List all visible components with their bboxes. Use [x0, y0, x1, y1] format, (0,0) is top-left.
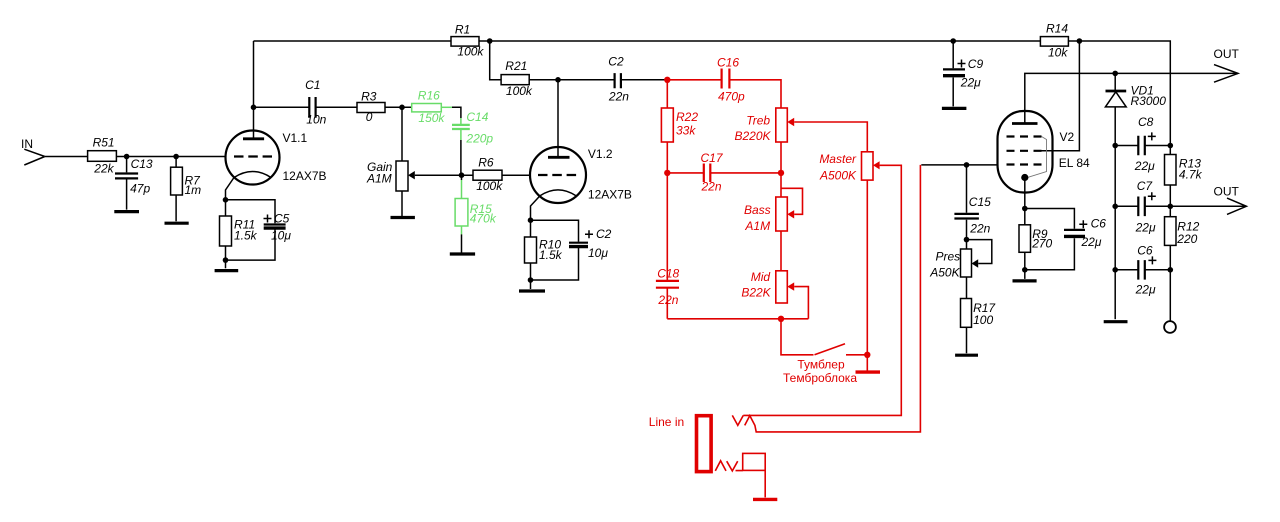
svg-text:22n: 22n	[969, 222, 990, 236]
ground R9	[1013, 270, 1037, 281]
svg-text:R51: R51	[93, 136, 115, 150]
wire R14 right to corner	[1069, 41, 1171, 146]
svg-text:10μ: 10μ	[588, 246, 608, 260]
resistor R13	[1165, 146, 1203, 207]
input IN terminal	[21, 137, 45, 165]
resistor R14	[1040, 22, 1068, 60]
resistor R22	[661, 80, 698, 173]
ground jack sleeve (red)	[753, 470, 777, 499]
node Pres top	[964, 237, 970, 243]
node V1.2 cathode	[528, 217, 534, 223]
wire R51 to V1.1 grid	[116, 156, 226, 158]
node switch / Master bottom (red)	[864, 352, 870, 358]
node rail R21 branch	[487, 38, 493, 44]
node R3 / Gain top	[399, 105, 405, 111]
svg-text:C5: C5	[274, 212, 290, 226]
svg-text:B220K: B220K	[734, 129, 771, 143]
wire rail R1 to R14	[479, 40, 1040, 42]
node C17 right (red)	[778, 170, 784, 176]
svg-text:R6: R6	[478, 156, 494, 170]
svg-text:C6: C6	[1091, 217, 1107, 231]
output OUT top arrow	[1214, 47, 1240, 82]
svg-text:R3000: R3000	[1131, 94, 1167, 108]
node C6 right	[1168, 267, 1174, 273]
svg-text:470k: 470k	[470, 211, 497, 225]
wire VD1 line C7 to C6	[1114, 206, 1116, 269]
resistor R6	[473, 156, 503, 194]
potentiometer Pres A50K	[929, 240, 992, 280]
svg-text:V1.1: V1.1	[283, 131, 308, 145]
svg-text:100: 100	[973, 313, 993, 327]
jack sleeve contact	[715, 453, 765, 471]
svg-text:22μ: 22μ	[1134, 159, 1155, 173]
svg-text:C13: C13	[131, 157, 153, 171]
svg-text:C15: C15	[969, 195, 991, 209]
wire V2 grid net	[921, 164, 997, 166]
svg-text:4.7k: 4.7k	[1179, 168, 1203, 182]
wire R6 to V1.2 grid	[502, 174, 531, 176]
ground switch (red)	[856, 355, 881, 372]
node V2 cathode / R9 top	[1022, 206, 1028, 212]
wire VD1 line C8 to C7	[1114, 146, 1116, 207]
node R6 / R15 / C14	[459, 172, 465, 178]
svg-text:10μ: 10μ	[271, 229, 291, 243]
node C15 tap	[964, 162, 970, 168]
svg-text:C18: C18	[657, 267, 679, 281]
svg-text:Master: Master	[819, 152, 857, 166]
capacitor C6 output chain	[1115, 244, 1170, 297]
wire V1.1 anode up to rail	[253, 41, 255, 139]
svg-text:C1: C1	[305, 78, 320, 92]
ground R17	[955, 354, 978, 357]
potentiometer Treb B220K	[734, 108, 794, 143]
svg-text:33k: 33k	[676, 124, 696, 138]
svg-text:22k: 22k	[93, 162, 114, 176]
wire input to R51	[45, 156, 88, 158]
capacitor C1	[305, 78, 327, 127]
svg-text:Line in: Line in	[649, 415, 684, 429]
wire Master wiper to jack tip	[743, 165, 901, 415]
node C7 right / OUT 2	[1168, 204, 1174, 210]
potentiometer Bass A1M	[744, 173, 802, 233]
node C6 left	[1112, 267, 1118, 273]
node R22 bottom (red)	[664, 170, 670, 176]
ground R10	[519, 280, 545, 291]
svg-text:22μ: 22μ	[960, 76, 981, 90]
svg-text:22n: 22n	[657, 293, 678, 307]
svg-text:R16: R16	[418, 89, 440, 103]
svg-text:100k: 100k	[476, 179, 503, 193]
svg-text:A50K: A50K	[929, 265, 960, 279]
svg-text:Bass: Bass	[744, 203, 771, 217]
node C13 tap	[124, 154, 130, 160]
wire Treb bottom to node	[780, 142, 782, 173]
capacitor C6 cathode bypass	[1025, 209, 1106, 270]
svg-text:C17: C17	[701, 151, 724, 165]
svg-text:22μ: 22μ	[1135, 283, 1156, 297]
ground R7	[165, 222, 189, 225]
svg-text:A500K: A500K	[819, 168, 857, 182]
wire R3 to R16	[385, 106, 412, 108]
wire R21 to C2	[529, 79, 614, 81]
wire C1 net	[254, 106, 358, 108]
wire Master bottom down	[866, 180, 868, 355]
capacitor C2 coupling	[608, 55, 629, 104]
capacitor C13	[115, 157, 153, 210]
wire anode rail top-left	[254, 40, 452, 42]
node V1.2 anode	[555, 77, 561, 83]
wire V2 anode up and to OUT	[1025, 73, 1238, 123]
svg-text:1.5k: 1.5k	[539, 248, 563, 262]
node V1.1 cathode	[223, 197, 229, 203]
node R9 bottom	[1022, 267, 1028, 273]
resistor R21	[501, 59, 533, 98]
svg-text:C16: C16	[717, 56, 739, 70]
svg-text:0: 0	[366, 110, 373, 124]
switch toggle tone block	[781, 319, 867, 385]
svg-text:C2: C2	[596, 227, 612, 241]
svg-text:1.5k: 1.5k	[234, 229, 258, 243]
svg-text:10n: 10n	[306, 113, 326, 127]
triode V1.2	[530, 147, 632, 220]
diode VD1 R3000	[1105, 73, 1166, 145]
resistor R3	[357, 90, 385, 125]
resistor R7	[171, 157, 202, 222]
pentode V2	[998, 111, 1091, 193]
wire screen grid branch	[1042, 41, 1080, 151]
potentiometer Mid B22K	[741, 231, 808, 319]
wire V2 cathode down	[1024, 180, 1026, 209]
node tone stack input (red)	[664, 77, 670, 83]
wire C2 to tone stack	[621, 79, 666, 81]
jack tip contact	[732, 415, 743, 425]
svg-text:C6: C6	[1137, 244, 1153, 258]
wire node to C16	[667, 79, 721, 81]
wire rail down to R21	[490, 41, 501, 80]
resistor R9	[1019, 209, 1053, 270]
svg-text:22μ: 22μ	[1081, 235, 1102, 249]
node R11 bottom	[223, 257, 229, 263]
jack break contact to V2 grid	[745, 165, 921, 432]
svg-text:C2: C2	[608, 55, 624, 69]
node C8 left	[1112, 143, 1118, 149]
resistor R15 (green)	[455, 175, 497, 253]
svg-text:22n: 22n	[608, 90, 629, 104]
resistor R51	[88, 136, 117, 176]
connector Line in jack	[649, 415, 711, 472]
wire Treb wiper to Master top	[794, 122, 867, 152]
svg-text:C8: C8	[1138, 115, 1154, 129]
wire tone stack bottom bus	[667, 318, 808, 320]
svg-text:V1.2: V1.2	[588, 147, 613, 161]
node VD1 top / OUT	[1112, 71, 1118, 77]
capacitor C17	[667, 151, 781, 194]
svg-text:Тумблер: Тумблер	[797, 357, 845, 371]
svg-text:Mid: Mid	[751, 270, 771, 284]
resistor R16 (green)	[412, 89, 446, 126]
svg-text:R14: R14	[1046, 22, 1068, 36]
wire C16 to Treb top	[729, 80, 781, 108]
svg-text:C9: C9	[968, 57, 984, 71]
svg-text:EL 84: EL 84	[1059, 156, 1090, 170]
output OUT bottom arrow	[1170, 185, 1246, 215]
svg-text:OUT: OUT	[1214, 47, 1240, 61]
capacitor C8	[1115, 115, 1170, 173]
node C7 left	[1112, 204, 1118, 210]
node R10 bottom	[528, 277, 534, 283]
capacitor C16	[717, 56, 745, 104]
svg-text:100k: 100k	[506, 84, 533, 98]
svg-text:47p: 47p	[130, 182, 150, 196]
capacitor C9	[943, 41, 983, 106]
ground C13	[114, 210, 139, 213]
svg-text:270: 270	[1031, 237, 1052, 251]
svg-text:Treb: Treb	[746, 114, 770, 128]
svg-text:C7: C7	[1137, 179, 1154, 193]
ground C9	[942, 107, 967, 110]
svg-text:R3: R3	[361, 90, 377, 104]
svg-text:470p: 470p	[718, 90, 745, 104]
resistor R10	[525, 220, 563, 280]
resistor R1	[451, 23, 484, 59]
node C8 right	[1168, 143, 1174, 149]
node R7 tap	[173, 154, 179, 160]
capacitor C15	[954, 165, 991, 240]
resistor R11	[220, 200, 258, 260]
svg-text:A1M: A1M	[744, 219, 770, 233]
ground Gain	[391, 216, 415, 219]
potentiometer Master A500K	[819, 152, 880, 183]
svg-text:12AX7B: 12AX7B	[283, 169, 327, 183]
svg-text:C14: C14	[466, 110, 488, 124]
svg-text:Темброблока: Темброблока	[783, 371, 857, 385]
capacitor C7	[1115, 179, 1170, 235]
svg-text:B22K: B22K	[741, 285, 771, 299]
svg-text:R21: R21	[505, 59, 527, 73]
svg-text:IN: IN	[21, 137, 33, 151]
svg-text:150k: 150k	[418, 111, 445, 125]
svg-text:22n: 22n	[701, 180, 722, 194]
terminal output circle	[1164, 270, 1176, 333]
svg-text:220p: 220p	[465, 131, 493, 145]
svg-text:1m: 1m	[185, 183, 202, 197]
potentiometer Gain A1M	[366, 107, 473, 216]
svg-text:22μ: 22μ	[1135, 221, 1156, 235]
svg-text:R22: R22	[676, 110, 698, 124]
resistor R17	[961, 277, 997, 353]
svg-text:220: 220	[1176, 232, 1197, 246]
ground VD1 chain	[1104, 270, 1128, 322]
svg-text:100k: 100k	[457, 45, 484, 59]
capacitor C18	[656, 173, 680, 319]
capacitor C2 cathode bypass	[531, 220, 612, 280]
svg-text:V2: V2	[1060, 130, 1075, 144]
svg-text:R1: R1	[455, 23, 470, 37]
node C9 tap on rail	[950, 38, 956, 44]
svg-text:12AX7B: 12AX7B	[588, 188, 632, 202]
ground R11	[215, 260, 239, 271]
capacitor C5	[226, 200, 292, 260]
wire R16 to C14	[441, 107, 461, 124]
svg-text:10k: 10k	[1048, 46, 1068, 60]
svg-text:OUT: OUT	[1214, 185, 1240, 199]
node bus / Mid bottom (red)	[778, 316, 784, 322]
svg-text:Pres: Pres	[936, 250, 961, 264]
triode V1.1	[226, 131, 327, 200]
wire V1.2 anode up	[557, 80, 559, 158]
wire C14 down to node	[460, 129, 462, 175]
ground R15	[450, 252, 475, 255]
resistor R12	[1165, 206, 1200, 269]
node R14 / screen branch	[1077, 38, 1083, 44]
capacitor C14 (green)	[452, 110, 493, 145]
node V1.1 anode / C1	[251, 105, 257, 111]
svg-text:A1M: A1M	[366, 172, 392, 186]
